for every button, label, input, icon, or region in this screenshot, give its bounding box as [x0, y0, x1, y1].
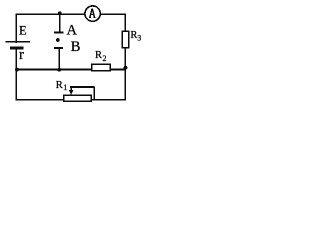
- ammeter A1 circle: [85, 6, 100, 21]
- svg-text:1: 1: [63, 83, 67, 92]
- rheostat slider arrowhead: [69, 90, 74, 95]
- svg-text:R: R: [56, 80, 63, 91]
- wire: from terminal B down to middle wire: [58, 48, 60, 70]
- resistor R3 box: [122, 31, 129, 48]
- rheostat R1 box: [64, 95, 91, 101]
- terminal B bar: [54, 47, 63, 49]
- svg-text:A: A: [67, 23, 78, 39]
- svg-text:B: B: [71, 39, 81, 55]
- wire: A/B branch vertical from top border to terminal A: [59, 14, 61, 33]
- svg-text:2: 2: [103, 54, 107, 63]
- ammeter letter A: [89, 9, 96, 18]
- svg-text:3: 3: [137, 34, 141, 43]
- junction dot left (battery branch on middle wire): [15, 68, 19, 72]
- node dot between A and B: [56, 38, 60, 42]
- battery E short thick plate: [10, 47, 23, 50]
- background: [0, 0, 148, 109]
- junction dot middle (B branch on middle wire): [57, 68, 61, 72]
- rheostat slider tap wire vertical down to bottom wire: [93, 87, 95, 100]
- terminal A bar: [54, 32, 63, 34]
- battery gap (white mask over left border): [14, 43, 21, 46]
- resistor R2 box: [92, 64, 111, 70]
- svg-text:E: E: [19, 23, 27, 37]
- svg-text:R: R: [95, 50, 102, 61]
- svg-text:r: r: [19, 47, 24, 63]
- rheostat slider arrow stem: [70, 87, 72, 92]
- wire: middle horizontal wire from battery bottom junction to right border: [16, 69, 126, 71]
- junction dot right (middle wire on right border): [124, 66, 128, 70]
- wire: outer loop frame: [16, 14, 125, 100]
- junction dot top (A/B branch on top wire): [58, 12, 62, 16]
- battery E long plate: [5, 41, 30, 43]
- rheostat slider tap wire horizontal: [70, 86, 94, 88]
